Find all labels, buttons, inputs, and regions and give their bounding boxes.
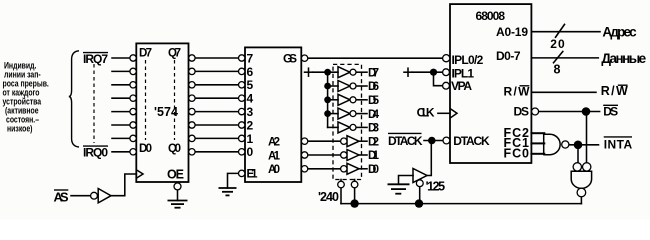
svg-text:3: 3	[247, 105, 254, 119]
svg-text:FC0: FC0	[504, 147, 530, 161]
svg-text:D1: D1	[368, 150, 380, 162]
svg-text:A0: A0	[268, 164, 280, 176]
svg-text:D0-7: D0-7	[496, 49, 521, 63]
svg-text:'240: '240	[318, 190, 339, 204]
svg-text:D6: D6	[368, 81, 379, 93]
svg-text:Q7: Q7	[168, 48, 181, 60]
svg-text:IRQ7: IRQ7	[83, 52, 108, 66]
svg-text:D3: D3	[368, 123, 379, 135]
svg-text:1: 1	[247, 132, 254, 146]
svg-text:VPA: VPA	[451, 79, 472, 93]
svg-text:GS: GS	[283, 51, 297, 65]
svg-text:D4: D4	[368, 109, 380, 121]
svg-text:D0: D0	[368, 164, 379, 176]
svg-text:AS: AS	[54, 190, 69, 205]
svg-text:D7: D7	[368, 67, 379, 79]
svg-text:DS: DS	[514, 104, 530, 118]
svg-text:5: 5	[247, 78, 254, 92]
svg-text:A0-19: A0-19	[496, 25, 528, 39]
svg-text:Адрес: Адрес	[602, 24, 637, 39]
svg-text:INTA: INTA	[604, 138, 633, 152]
svg-text:Q0: Q0	[168, 143, 181, 155]
svg-text:2: 2	[247, 118, 254, 132]
svg-text:20: 20	[550, 37, 565, 51]
svg-text:0: 0	[247, 145, 254, 159]
svg-text:Данные: Данные	[601, 51, 646, 66]
svg-text:D0: D0	[139, 143, 152, 155]
svg-text:IPL0/2: IPL0/2	[452, 53, 484, 67]
svg-text:R/W: R/W	[504, 85, 531, 99]
svg-text:'125: '125	[426, 180, 446, 194]
svg-text:'574: '574	[154, 105, 178, 119]
svg-text:68008: 68008	[476, 9, 506, 23]
svg-text:CLK: CLK	[417, 106, 435, 120]
svg-text:IRQ0: IRQ0	[83, 146, 108, 160]
svg-text:A2: A2	[268, 137, 280, 149]
svg-text:R/W: R/W	[601, 84, 628, 98]
svg-text:8: 8	[554, 63, 561, 77]
svg-text:низкое): низкое)	[7, 124, 33, 134]
svg-text:DTACK: DTACK	[388, 134, 423, 148]
svg-text:E1: E1	[247, 169, 259, 181]
svg-text:D2: D2	[368, 136, 379, 148]
svg-text:D5: D5	[368, 95, 380, 107]
svg-text:7: 7	[247, 51, 254, 65]
svg-text:6: 6	[247, 65, 254, 79]
svg-text:OE: OE	[167, 168, 184, 182]
svg-text:A1: A1	[268, 150, 281, 162]
svg-text:4: 4	[247, 92, 254, 106]
svg-text:DTACK: DTACK	[453, 134, 490, 148]
svg-text:D7: D7	[139, 48, 152, 60]
svg-text:DS: DS	[603, 105, 618, 119]
